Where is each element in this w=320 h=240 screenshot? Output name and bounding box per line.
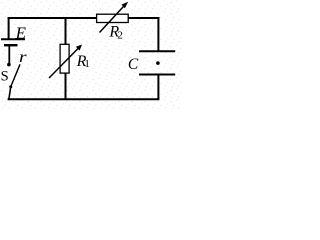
- svg-text:2: 2: [117, 29, 123, 41]
- svg-text:r: r: [19, 48, 27, 66]
- svg-text:C: C: [128, 56, 139, 73]
- svg-text:E: E: [15, 23, 27, 42]
- svg-text:S: S: [1, 69, 9, 85]
- svg-text:1: 1: [84, 58, 90, 70]
